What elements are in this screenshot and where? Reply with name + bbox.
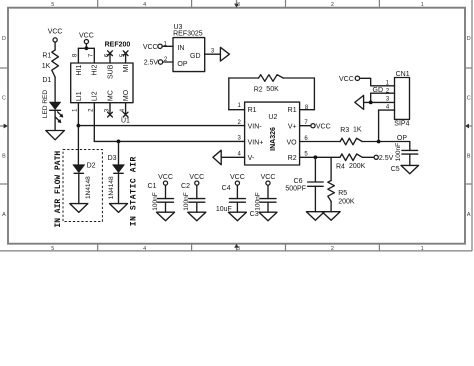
ground (C5) [401,165,419,173]
svg-text:R1: R1 [42,52,51,59]
ground (R5) [322,212,340,221]
wire VCC to U1 pins 8-7 [85,44,87,49]
net flag (U2 V-) [213,150,221,165]
VCC terminal (CN1 pin 1) [339,76,360,83]
capacitor C5 100nF [391,143,418,173]
wire C4 to ground [236,202,238,212]
pin 5 no-connect [123,51,128,63]
svg-text:VCC: VCC [143,44,158,51]
wire CN1 pin 1 [360,78,395,86]
svg-text:R4: R4 [336,163,345,170]
wire CN1 pin 2 [371,92,395,94]
svg-text:D: D [467,36,471,42]
svg-text:LI1: LI1 [76,91,83,101]
VCC terminal (U2 pin 7) [311,123,331,130]
VCC power flag (C1) [158,174,173,185]
svg-text:1K: 1K [353,127,362,134]
wire U3 pin 1 [162,45,173,47]
wire C3 to ground [267,202,269,212]
svg-text:VCC: VCC [79,32,94,39]
pin 6 no-connect [108,51,113,63]
node VIN+ junction [117,140,121,144]
wire CN1 pin 4 drop [378,110,380,141]
junction VCC bridge [85,46,89,50]
svg-text:C2: C2 [181,183,190,190]
resistor R3 1K [340,127,362,145]
diode D2 1N4148 [73,163,96,199]
wire VCC to C4 [236,185,238,198]
node VO/OP junction [377,140,381,144]
svg-text:R3: R3 [340,127,349,134]
capacitor C2 100nF [181,183,205,211]
svg-text:VIN-: VIN- [248,124,263,131]
svg-text:50K: 50K [266,86,279,93]
capacitor C4 10uF [216,185,246,213]
svg-text:VCC: VCC [339,76,354,83]
svg-text:SIP4: SIP4 [394,121,409,128]
net flag (U3 GD) [220,47,229,61]
wire pin 7 stub [93,48,95,63]
svg-text:C3: C3 [250,211,259,218]
resistor R1 1K [42,50,59,77]
svg-text:5: 5 [51,2,54,8]
svg-text:U2: U2 [268,114,277,121]
svg-text:V+: V+ [288,124,297,131]
node VIN- junction [77,124,81,128]
svg-text:R2: R2 [254,87,263,94]
svg-text:VCC: VCC [230,174,245,181]
svg-text:2: 2 [331,2,334,8]
VCC power flag (U1) [79,32,94,43]
wire U2 pin 4 [221,156,244,158]
svg-text:VCC: VCC [261,174,276,181]
VCC power flag (R1) [48,29,63,42]
svg-text:2: 2 [331,246,334,252]
ground (C6) [306,212,324,221]
svg-text:OP: OP [397,135,407,142]
wire OP to C5 [409,142,411,151]
svg-text:R2: R2 [288,155,297,162]
svg-text:C6: C6 [294,178,303,185]
ground (C4) [228,212,246,221]
svg-text:D: D [2,36,6,42]
wire R4 to 2.5V [362,156,374,158]
svg-text:3: 3 [237,246,240,252]
svg-text:VCC: VCC [189,174,204,181]
svg-text:A: A [467,212,471,218]
op-amp U1 REF200 body [71,41,133,124]
ground (C2) [188,212,206,221]
svg-text:1N4148: 1N4148 [85,176,92,199]
wire VIN- net [78,125,244,127]
svg-text:C4: C4 [222,185,231,192]
svg-text:REF3025: REF3025 [173,31,203,38]
VCC power flag (C4) [230,174,245,185]
wire VIN+ net [94,140,244,142]
wire VCC to C2 [196,185,198,198]
svg-text:U1: U1 [121,118,130,125]
svg-text:R1: R1 [288,107,297,114]
svg-text:IN STATIC AIR: IN STATIC AIR [129,156,138,226]
wire U1 pin 1 down [77,103,79,126]
wire D1 to ground [54,110,56,130]
svg-text:C: C [2,95,6,101]
svg-text:200K: 200K [349,163,366,170]
resistor R4 200K [336,154,366,170]
svg-text:MO: MO [123,89,130,101]
svg-text:VCC: VCC [316,123,331,130]
wire D2 to ground [78,173,80,203]
svg-text:LED RED: LED RED [42,90,49,118]
svg-text:C5: C5 [391,166,400,173]
pin 3 no-connect [108,103,113,117]
resistor R2 50K [254,75,284,94]
svg-text:C: C [467,95,471,101]
ground (D3) [110,204,128,213]
wire U1 pin 2 down [93,103,95,142]
svg-text:D2: D2 [87,163,96,170]
net flag (CN1 ground) [355,95,364,109]
svg-text:VIN+: VIN+ [248,139,264,146]
svg-text:R5: R5 [338,190,347,197]
ground (D2) [70,204,88,213]
wire R2 loop left top [229,77,259,79]
node CN1 pin 3 [369,101,373,105]
wire C6 drop [314,157,316,182]
op-amp U3 REF3025 body [173,24,205,72]
wire to D2 [77,126,79,165]
svg-text:200K: 200K [338,198,355,205]
resistor R5 200K [328,181,355,206]
wire U3 pin 2 [163,61,173,63]
2.5V terminal (R4) [374,155,394,162]
svg-text:VO: VO [286,139,297,146]
connector CN1 SIP4 body [394,71,409,127]
svg-text:D1: D1 [42,77,51,84]
svg-text:IN: IN [177,45,184,52]
wire CN1 pin2 to pin3 [370,93,372,102]
svg-text:SUB: SUB [107,64,114,79]
svg-text:1K: 1K [42,63,51,70]
node R2/C6 junction [314,155,318,159]
svg-text:500PF: 500PF [285,185,306,192]
2.5V terminal (U3 pin 2) [144,60,163,67]
svg-text:100nF: 100nF [152,192,159,210]
wire R5 to ground [330,201,332,211]
ground (C3) [259,212,277,221]
svg-text:2.5V: 2.5V [144,60,159,67]
wire pin 8 stub [77,48,79,63]
VCC power flag (C2) [189,174,204,185]
wire C1 to ground [165,202,167,212]
wire VCC to R1 [54,42,56,50]
op-amp U2 INA326 body [237,102,308,165]
svg-text:HI1: HI1 [76,65,83,76]
wire CN1 pin 4 [379,109,395,111]
ground (C1) [157,212,175,221]
svg-text:HI2: HI2 [92,65,99,76]
diode D3 1N4148 [108,155,125,199]
wire R3 to OP corner [362,141,410,143]
capacitor C1 100nF [148,183,174,211]
svg-text:100nF: 100nF [254,192,261,210]
wire U2 pin 1 stub [229,109,245,111]
svg-text:MI: MI [123,65,130,73]
wire VCC to C1 [165,185,167,198]
VCC terminal (U3 pin 1) [143,44,162,51]
wire R2 loop right top [283,77,314,79]
annotation dashed box (air flow path) [63,150,102,222]
VCC power flag (C3) [261,174,276,185]
svg-text:4: 4 [143,2,146,8]
svg-text:VCC: VCC [48,29,63,36]
svg-text:B: B [2,154,6,160]
svg-text:LI2: LI2 [92,91,99,101]
wire U2 pin 8 stub [300,109,315,111]
svg-text:MC: MC [107,90,114,101]
wire U2 pin 7 [300,125,311,127]
svg-text:4: 4 [143,246,146,252]
ground (LED) [46,131,65,140]
svg-text:1: 1 [421,2,424,8]
capacitor C6 500PF [285,178,323,193]
pin 4 no-connect [123,103,128,117]
svg-text:GD: GD [190,53,201,60]
wire R2 loop left [228,78,230,110]
wire bridge pin8-pin7 [78,47,94,49]
svg-text:3: 3 [237,2,240,8]
svg-text:B: B [467,154,471,160]
wire C6 to ground [314,186,316,211]
svg-text:IN AIR FLOW PATH: IN AIR FLOW PATH [54,151,63,228]
wire U2 pin 5 to R4 [300,156,340,158]
wire C2 to ground [196,202,198,212]
wire R1 to D1 [54,77,56,102]
wire VCC to C3 [267,185,269,198]
wire R2 loop right [313,78,315,110]
wire CN1 pin 3 [364,101,395,103]
svg-text:OP: OP [177,61,187,68]
svg-text:A: A [2,212,6,218]
svg-text:REF200: REF200 [105,41,131,48]
svg-text:1N4148: 1N4148 [108,176,115,199]
svg-text:100nF: 100nF [395,143,402,161]
wire U3 pin 3 [205,53,221,55]
svg-text:100nF: 100nF [183,192,190,210]
svg-text:VCC: VCC [158,174,173,181]
svg-text:C1: C1 [148,183,157,190]
svg-text:2.5V: 2.5V [379,155,394,162]
svg-text:V-: V- [248,155,255,162]
svg-text:INA326: INA326 [270,127,277,151]
svg-text:1: 1 [421,246,424,252]
wire C5 to ground [409,154,411,165]
svg-text:5: 5 [51,246,54,252]
svg-text:D3: D3 [108,155,117,162]
wire to D3 [118,141,120,164]
svg-text:R1: R1 [248,107,257,114]
wire U2 pin 6 to R3 [300,141,341,143]
capacitor C3 100nF [250,192,276,218]
wire R5 drop [330,157,332,180]
LED D1 (LED RED) [42,77,63,123]
wire D3 to ground [118,173,120,203]
